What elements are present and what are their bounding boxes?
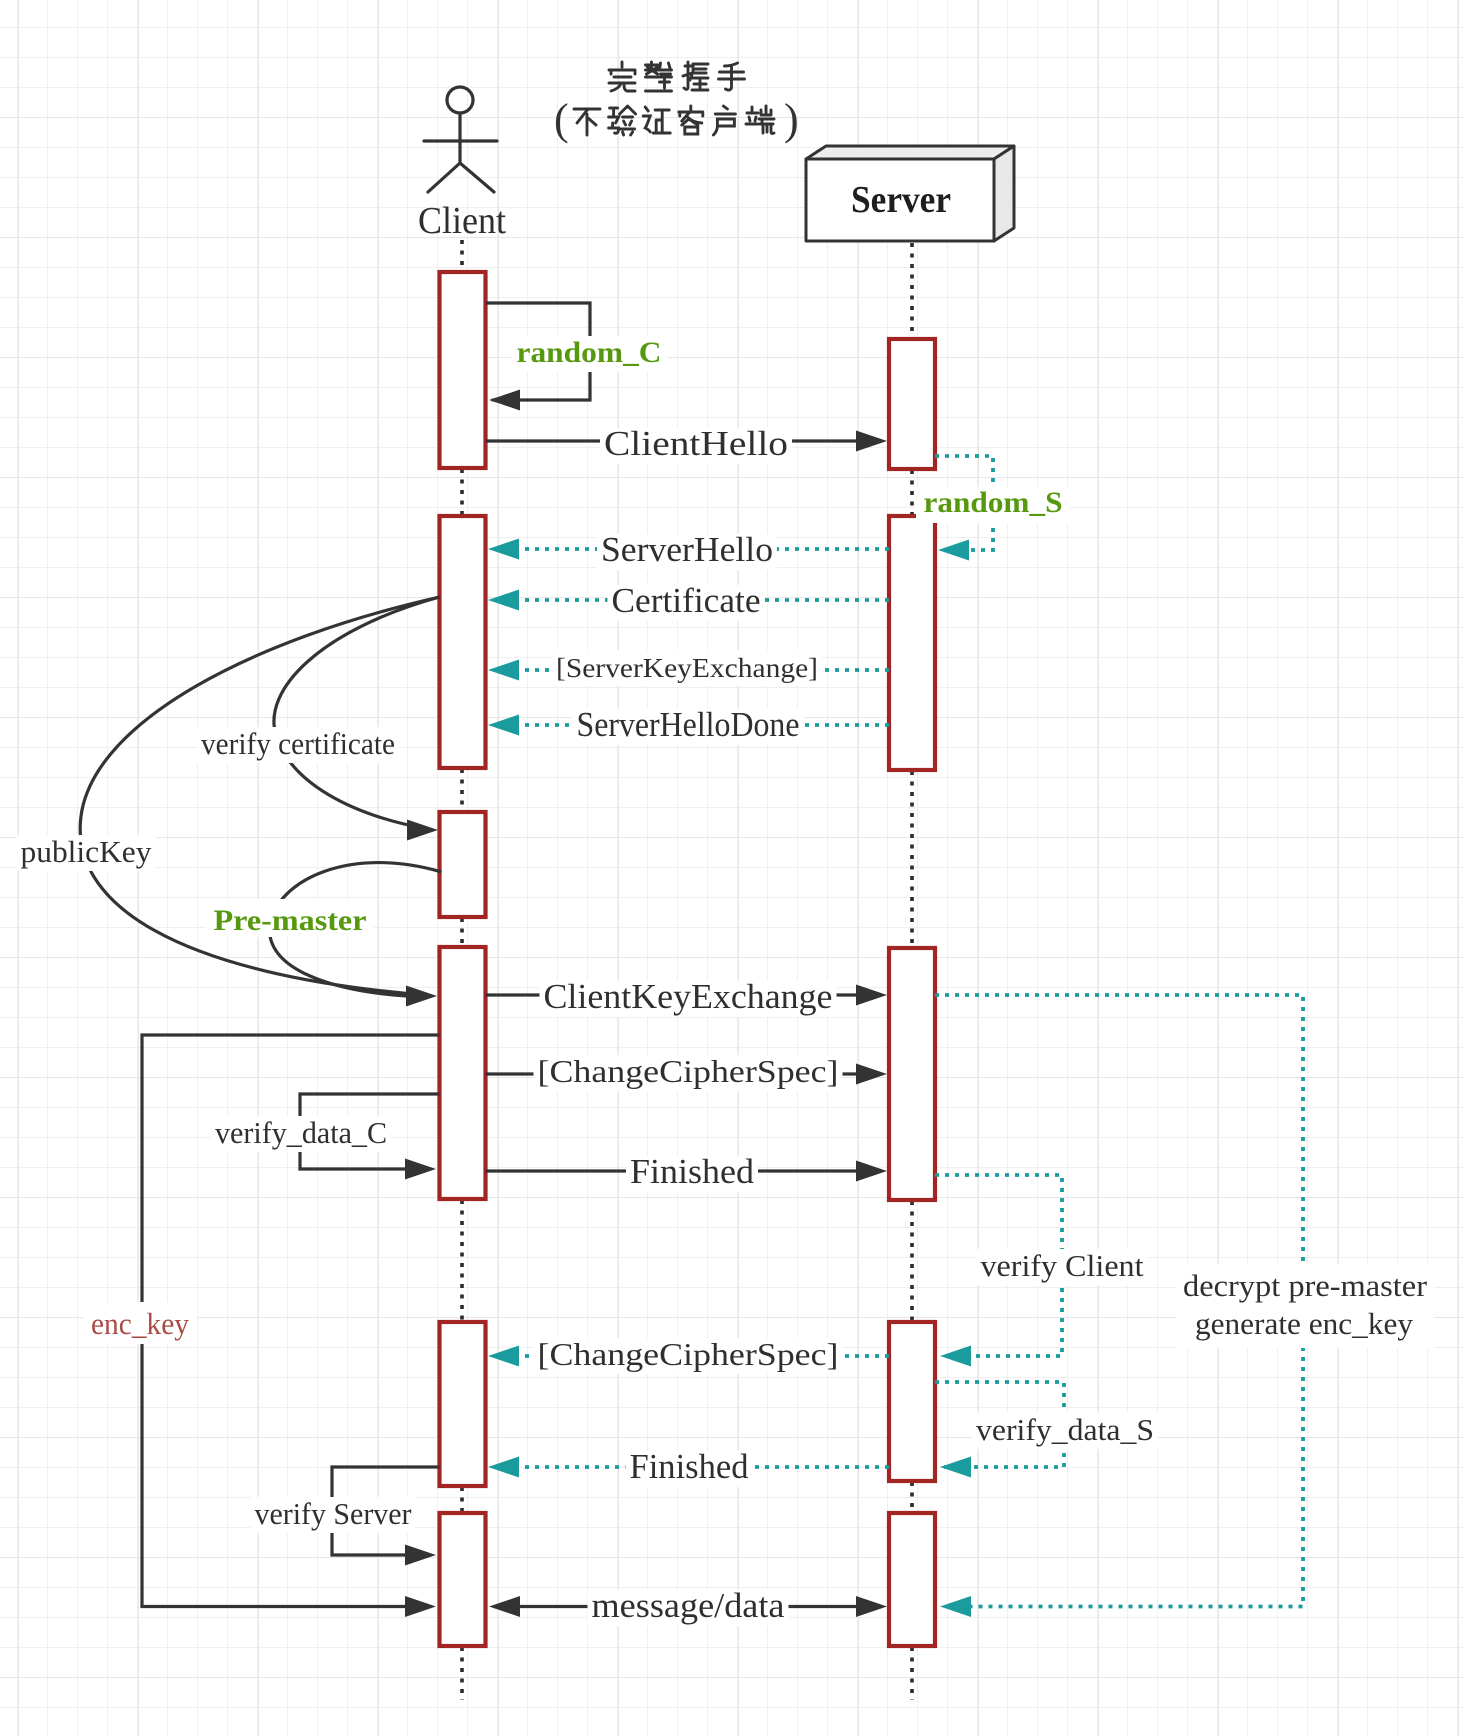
svg-text:Finished: Finished	[630, 1152, 755, 1191]
svg-text:Server: Server	[851, 179, 951, 221]
message random_S self loop (teal dotted)	[935, 456, 993, 550]
svg-text:): )	[784, 95, 799, 144]
svg-text:random_S: random_S	[924, 486, 1063, 519]
svg-text:message/data: message/data	[592, 1586, 785, 1625]
server lifeline	[910, 243, 914, 338]
svg-text:verify Client: verify Client	[981, 1248, 1144, 1283]
server activation S1	[889, 339, 935, 469]
message message/data (both directions)	[512, 1605, 860, 1608]
title line 1: 完整握手	[609, 62, 635, 91]
svg-text:Certificate: Certificate	[612, 581, 761, 620]
message Certificate (teal dotted)	[492, 598, 889, 602]
message ClientHello	[486, 439, 861, 442]
svg-text:[ChangeCipherSpec]: [ChangeCipherSpec]	[538, 1336, 839, 1372]
path enc_key	[142, 1035, 440, 1607]
message random_C self loop	[486, 303, 591, 400]
svg-text:decrypt pre-master: decrypt pre-master	[1183, 1268, 1428, 1303]
client activation A5	[440, 1322, 486, 1486]
svg-text:Client: Client	[418, 200, 506, 242]
svg-text:ClientKeyExchange: ClientKeyExchange	[544, 977, 833, 1016]
message Finished	[486, 1169, 861, 1172]
svg-text:verify_data_S: verify_data_S	[976, 1412, 1154, 1447]
teal loop verify Client	[935, 1175, 1062, 1356]
svg-text:ClientHello: ClientHello	[604, 424, 788, 463]
client activation A1	[440, 272, 486, 468]
message [ChangeCipherSpec]	[486, 1072, 861, 1075]
curved message Pre-master (to same arrow)	[270, 863, 442, 997]
svg-text:(: (	[554, 95, 569, 144]
svg-text:random_C: random_C	[517, 336, 662, 369]
svg-text:[ServerKeyExchange]: [ServerKeyExchange]	[556, 653, 818, 683]
client activation A4	[440, 947, 486, 1199]
server activation S2	[889, 516, 935, 770]
label decrypt pre-master / generate enc_key	[1176, 1264, 1434, 1348]
teal loop verify_data_S	[935, 1382, 1064, 1467]
svg-text:publicKey: publicKey	[21, 834, 152, 869]
server activation S4	[889, 1322, 935, 1481]
client activation A3	[440, 812, 486, 917]
teal path decrypt pre-master / generate enc_key	[935, 995, 1303, 1607]
svg-text:generate enc_key: generate enc_key	[1195, 1306, 1413, 1341]
curved message verify certificate	[274, 597, 440, 829]
server activation S3	[889, 948, 935, 1200]
svg-text:Pre-master: Pre-master	[214, 904, 367, 937]
svg-text:verify Server: verify Server	[255, 1496, 413, 1531]
message ServerHelloDone (teal dotted)	[492, 723, 889, 727]
client lifeline	[460, 240, 464, 271]
svg-text:verify_data_C: verify_data_C	[215, 1115, 387, 1150]
self loop verify_data_C	[300, 1094, 440, 1169]
svg-text:ServerHello: ServerHello	[601, 530, 773, 569]
client activation A6	[440, 1513, 486, 1646]
message [ServerKeyExchange] (teal dotted)	[492, 668, 889, 672]
message ClientKeyExchange	[486, 993, 861, 996]
message ServerHello (teal dotted)	[492, 547, 889, 551]
svg-text:Finished: Finished	[630, 1447, 749, 1486]
message Finished (server to client, teal)	[492, 1465, 889, 1469]
actor Client	[424, 87, 497, 192]
self loop verify Server	[332, 1467, 440, 1555]
curved message publicKey	[80, 597, 439, 995]
message [ChangeCipherSpec] (server to client, teal)	[492, 1354, 889, 1358]
client activation A2	[440, 516, 486, 768]
svg-text:verify certificate: verify certificate	[201, 726, 395, 761]
svg-text:enc_key: enc_key	[91, 1306, 189, 1341]
svg-text:ServerHelloDone: ServerHelloDone	[577, 705, 800, 744]
server activation S5	[889, 1513, 935, 1646]
server box	[806, 146, 1014, 241]
svg-text:[ChangeCipherSpec]: [ChangeCipherSpec]	[538, 1053, 839, 1089]
